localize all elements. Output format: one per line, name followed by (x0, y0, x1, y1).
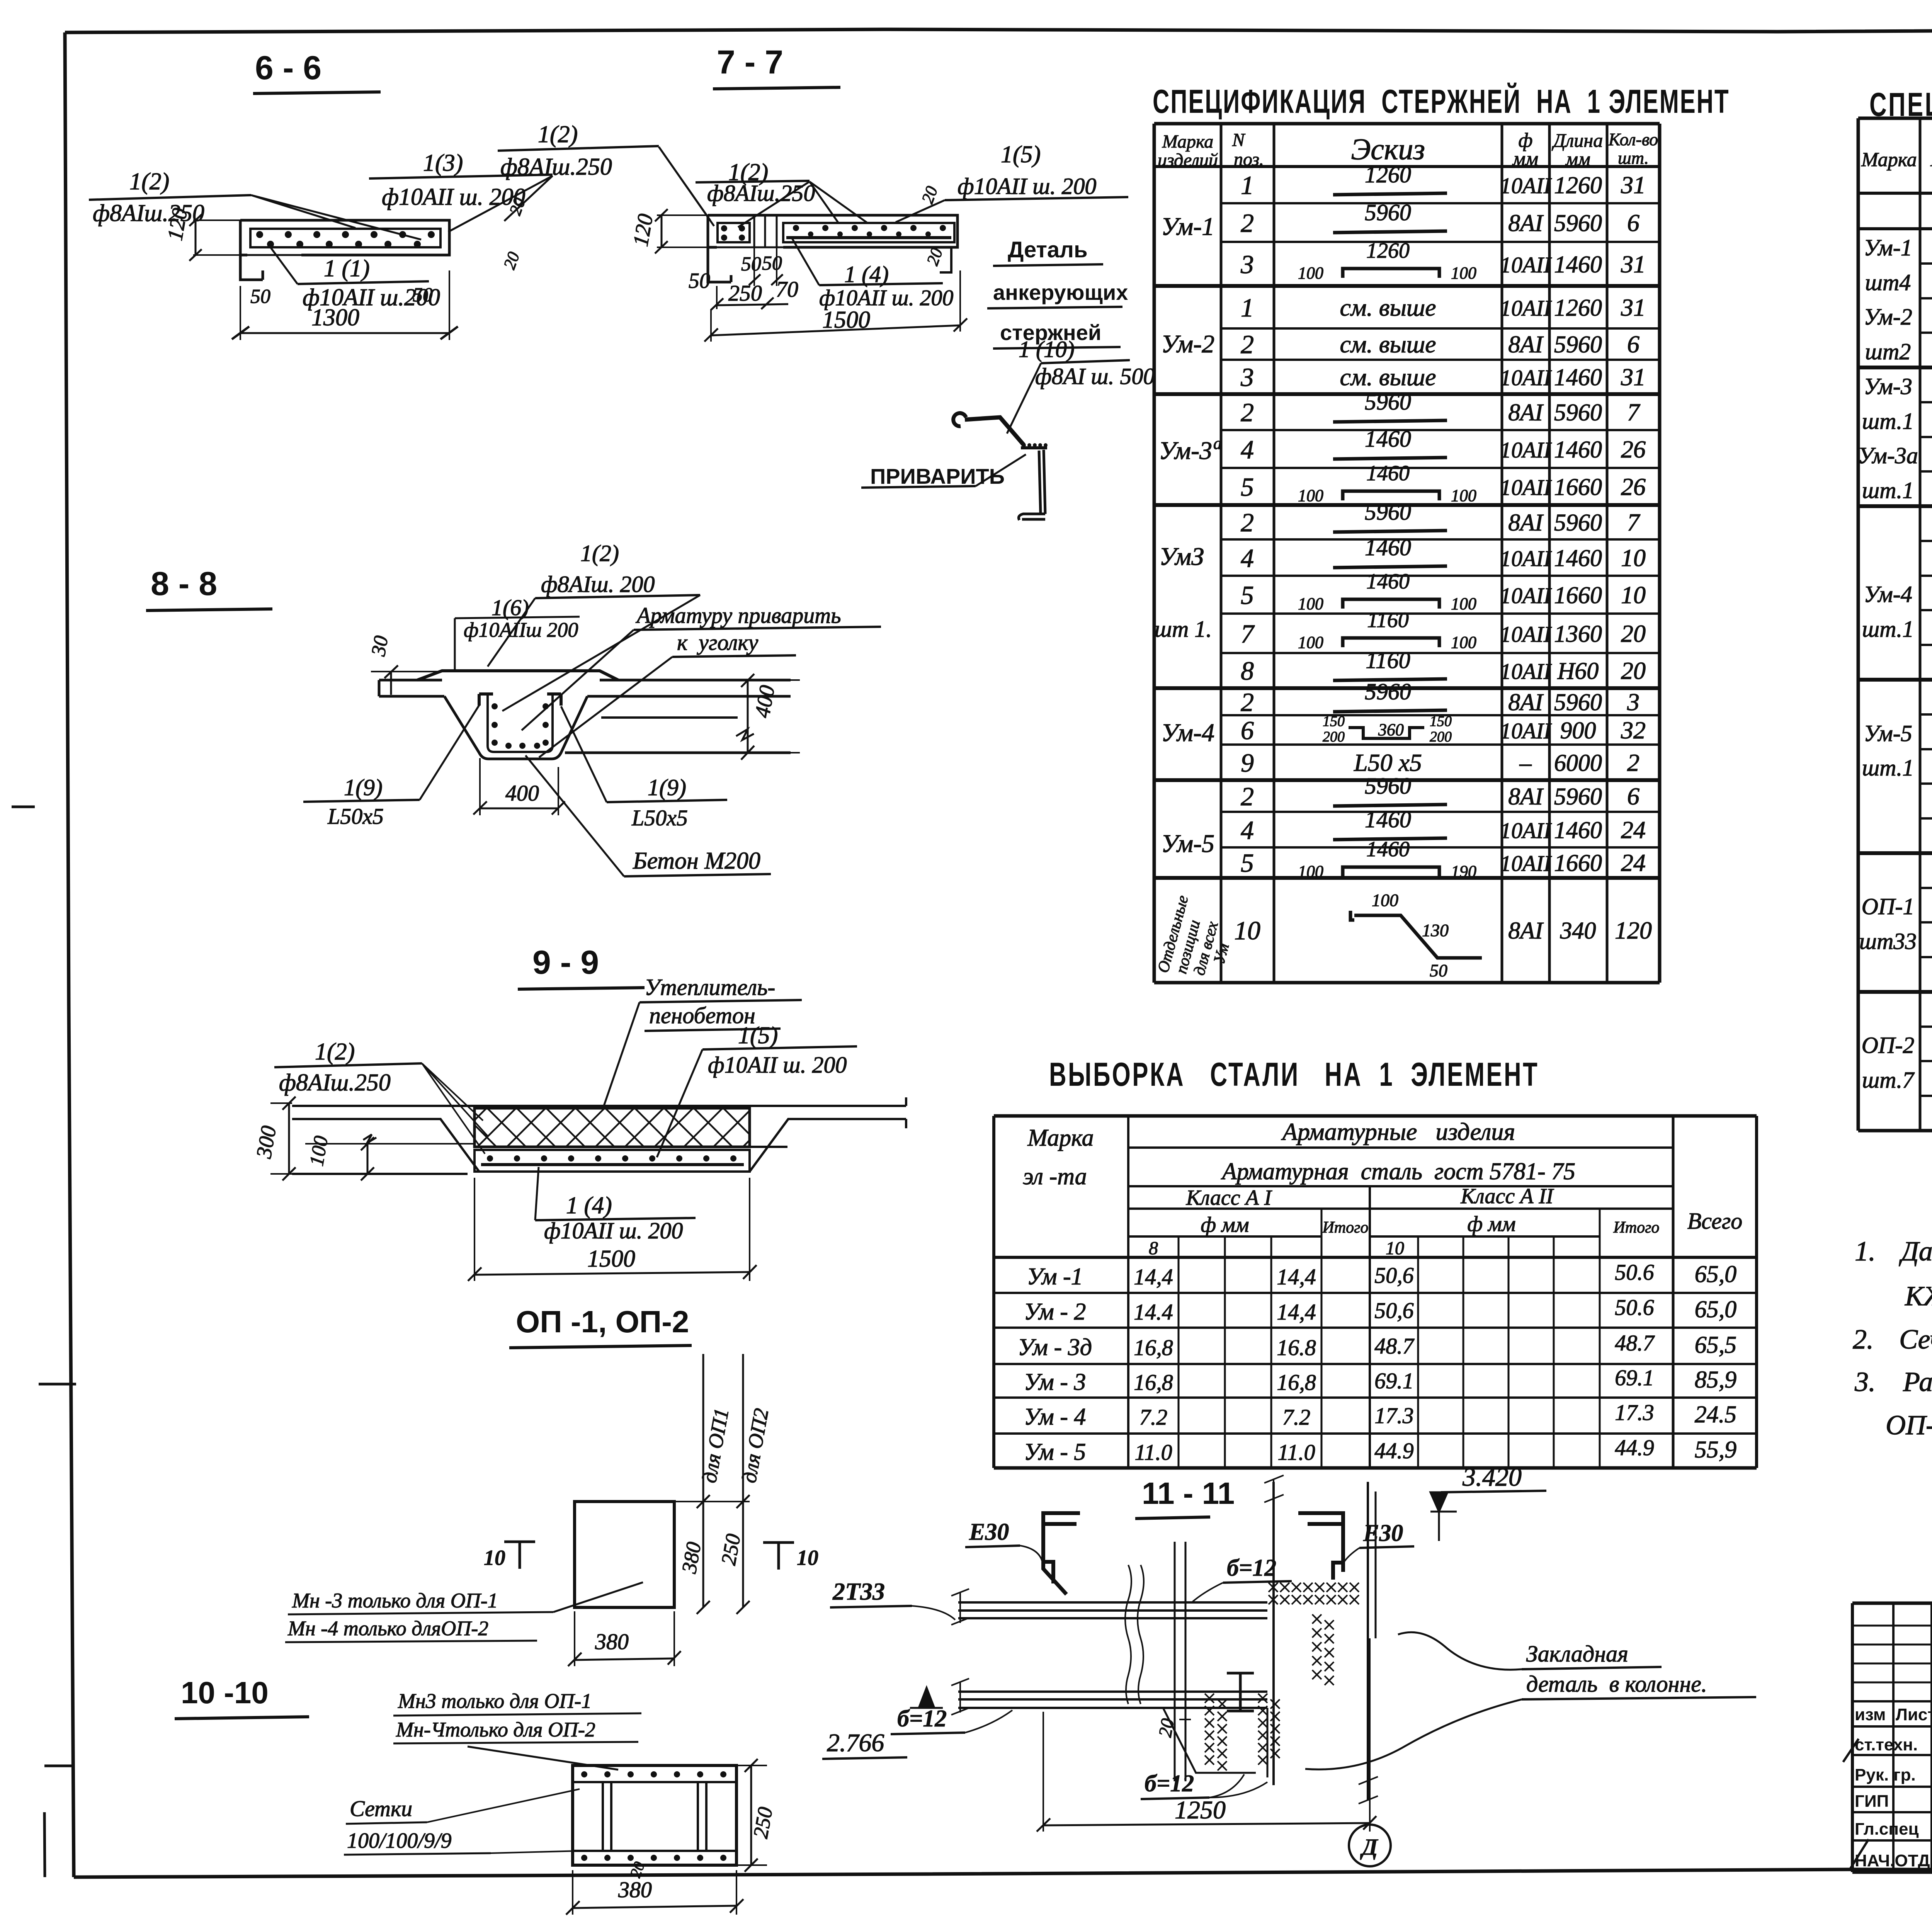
svg-text:100: 100 (1372, 890, 1398, 910)
svg-text:250: 250 (717, 1532, 745, 1567)
svg-text:17.3: 17.3 (1615, 1400, 1654, 1425)
svg-text:10АII: 10АII (1500, 622, 1552, 647)
svg-text:1660: 1660 (1554, 474, 1602, 500)
svg-text:50: 50 (741, 253, 761, 275)
9-9 main slab lines (292, 1106, 906, 1174)
svg-text:5960: 5960 (1554, 210, 1602, 236)
svg-text:10АII: 10АII (1500, 365, 1552, 390)
svg-text:120: 120 (1615, 917, 1652, 944)
svg-text:1660: 1660 (1554, 850, 1602, 876)
8-8 top plate trapezoid (417, 671, 618, 680)
svg-text:изделий: изделий (1158, 150, 1218, 170)
svg-text:8: 8 (1149, 1238, 1158, 1259)
svg-text:КЖ- 18 и КЖ- 19.: КЖ- 18 и КЖ- 19. (1905, 1281, 1932, 1311)
svg-text:16,8: 16,8 (1277, 1370, 1316, 1395)
svg-text:Мн-Чтолько для ОП-2: Мн-Чтолько для ОП-2 (396, 1718, 595, 1741)
svg-text:8 - 8: 8 - 8 (151, 565, 217, 602)
svg-text:360: 360 (1378, 720, 1404, 739)
svg-text:1360: 1360 (1554, 621, 1602, 647)
svg-text:Ум-4: Ум-4 (1864, 582, 1912, 607)
svg-text:8АI: 8АI (1508, 918, 1544, 944)
svg-text:Арматурная сталь гост 5781-: Арматурная сталь гост 5781- 75 (1221, 1158, 1575, 1185)
svg-text:200: 200 (1430, 729, 1452, 745)
svg-text:31: 31 (1621, 363, 1646, 391)
svg-text:2: 2 (1241, 508, 1254, 537)
svg-text:1260: 1260 (1554, 295, 1602, 321)
svg-text:100: 100 (1298, 594, 1323, 613)
svg-text:24: 24 (1621, 816, 1646, 844)
section 7-7 dim 120 (629, 212, 658, 248)
anchor hook detail (953, 413, 966, 426)
svg-text:100: 100 (1451, 594, 1476, 613)
11-11 middle vertical lines (1174, 1542, 1176, 1781)
svg-text:50.6: 50.6 (1615, 1295, 1654, 1320)
svg-text:10АII: 10АII (1500, 252, 1552, 277)
svg-text:Поз.: Поз. (1930, 149, 1932, 171)
svg-text:7 - 7: 7 - 7 (717, 44, 783, 81)
svg-text:5: 5 (1241, 580, 1254, 610)
svg-text:10: 10 (797, 1546, 818, 1570)
svg-text:ОП-2: ОП-2 (1862, 1032, 1915, 1058)
svg-text:10АII: 10АII (1500, 546, 1552, 571)
svg-text:1500: 1500 (587, 1246, 635, 1272)
svg-text:69.1: 69.1 (1615, 1365, 1654, 1390)
svg-text:анкерующих: анкерующих (993, 280, 1128, 304)
svg-text:1(5): 1(5) (1001, 141, 1041, 168)
svg-text:1460: 1460 (1366, 837, 1410, 861)
svg-text:б=12: б=12 (1145, 1770, 1194, 1797)
9-9 dim 100 (306, 1134, 333, 1168)
svg-text:2.: 2. (1853, 1324, 1874, 1355)
svg-text:44.9: 44.9 (1615, 1435, 1654, 1460)
svg-text:10АII: 10АII (1500, 583, 1552, 608)
OP section mark 10 right (763, 1543, 794, 1570)
svg-text:4: 4 (1241, 435, 1254, 464)
svg-text:1(2): 1(2) (580, 541, 619, 566)
svg-text:Арматуру приварить: Арматуру приварить (635, 603, 841, 628)
svg-text:3: 3 (1627, 688, 1639, 716)
svg-text:2: 2 (1627, 749, 1639, 776)
svg-text:к уголку: к уголку (677, 630, 758, 655)
svg-text:ф10АII ш. 200: ф10АII ш. 200 (957, 173, 1097, 199)
svg-text:1460: 1460 (1554, 817, 1602, 844)
svg-text:Лист: Лист (1896, 1705, 1932, 1724)
11-11 bottom beam double lines (958, 1692, 1267, 1708)
11-11 dim 20 (1155, 1717, 1179, 1738)
svg-text:8АI: 8АI (1508, 400, 1544, 426)
svg-text:50: 50 (1430, 961, 1447, 980)
svg-text:Ум-5: Ум-5 (1161, 830, 1214, 858)
svg-text:11 - 11: 11 - 11 (1142, 1476, 1235, 1510)
svg-text:ст.техн.: ст.техн. (1855, 1735, 1918, 1754)
svg-text:ф8АI ш. 500: ф8АI ш. 500 (1035, 364, 1155, 389)
svg-text:Ум-3: Ум-3 (1864, 374, 1912, 399)
svg-text:поз.: поз. (1234, 149, 1264, 170)
9-9 leaders from 1(2) (422, 1063, 483, 1121)
svg-text:ГИП: ГИП (1855, 1792, 1889, 1811)
svg-text:Гл.спец: Гл.спец (1855, 1820, 1919, 1838)
svg-text:31: 31 (1621, 294, 1646, 321)
svg-text:6: 6 (1627, 209, 1639, 236)
svg-text:50: 50 (413, 284, 433, 306)
svg-text:100: 100 (1451, 633, 1476, 652)
svg-text:1(5): 1(5) (738, 1022, 778, 1049)
svg-text:16,8: 16,8 (1134, 1370, 1173, 1395)
svg-text:50.6: 50.6 (1615, 1260, 1654, 1285)
svg-text:5960: 5960 (1365, 200, 1411, 225)
svg-text:100: 100 (1298, 633, 1323, 652)
svg-text:11.0: 11.0 (1134, 1440, 1172, 1465)
section 6-6 beam slab inner (250, 229, 440, 247)
svg-text:ф8АIш. 200: ф8АIш. 200 (541, 571, 655, 597)
svg-text:9 - 9: 9 - 9 (532, 944, 599, 981)
OP section mark 10 left (504, 1542, 535, 1569)
svg-text:24.5: 24.5 (1695, 1401, 1737, 1428)
svg-text:ф10АII ш. 200: ф10АII ш. 200 (544, 1218, 683, 1243)
svg-text:3.: 3. (1854, 1366, 1876, 1397)
svg-text:8: 8 (1241, 656, 1254, 685)
svg-text:Марка: Марка (1027, 1125, 1094, 1151)
11-11 xxx vertical strip (1312, 1614, 1321, 1624)
svg-text:1460: 1460 (1554, 364, 1602, 391)
svg-text:5960: 5960 (1554, 689, 1602, 716)
svg-text:ПРИВАРИТЬ: ПРИВАРИТЬ (870, 464, 1005, 488)
svg-text:7.2: 7.2 (1282, 1405, 1311, 1430)
svg-text:–: – (1519, 750, 1532, 776)
11-11 plate below with xxx (1205, 1694, 1214, 1703)
svg-text:Рук. гр.: Рук. гр. (1855, 1765, 1916, 1784)
steel summary table grid (994, 1116, 1757, 1468)
svg-text:5960: 5960 (1554, 400, 1602, 426)
svg-text:5960: 5960 (1365, 679, 1411, 704)
svg-text:мм: мм (1565, 148, 1590, 170)
svg-text:1300: 1300 (311, 304, 359, 331)
svg-text:31: 31 (1621, 250, 1646, 278)
9-9 right side lines (750, 1097, 906, 1172)
section 7-7 middle slot lines (753, 215, 755, 247)
svg-text:Ум - 2: Ум - 2 (1024, 1299, 1086, 1325)
svg-text:6: 6 (1241, 716, 1254, 745)
svg-text:Итого: Итого (1322, 1219, 1368, 1236)
svg-text:10: 10 (1234, 916, 1260, 945)
svg-text:ф10АII ш. 200: ф10АII ш. 200 (708, 1052, 847, 1078)
svg-text:Закладная: Закладная (1526, 1641, 1628, 1667)
svg-text:10АII: 10АII (1500, 818, 1552, 843)
svg-text:1(6): 1(6) (492, 595, 529, 620)
svg-text:26: 26 (1621, 473, 1646, 500)
svg-text:Ум-2: Ум-2 (1864, 304, 1912, 330)
svg-text:190: 190 (1451, 862, 1476, 881)
svg-text:1 (4): 1 (4) (566, 1192, 612, 1219)
svg-text:Эскиз: Эскиз (1351, 132, 1425, 166)
svg-text:8АI: 8АI (1508, 689, 1544, 716)
svg-text:1460: 1460 (1365, 807, 1411, 832)
section 7-7 small 20 marks (918, 184, 941, 206)
svg-text:14,4: 14,4 (1277, 1299, 1316, 1325)
svg-text:14,4: 14,4 (1134, 1264, 1173, 1289)
svg-text:400: 400 (750, 684, 780, 719)
svg-text:5960: 5960 (1554, 332, 1602, 358)
8-8 dim 400 right (750, 684, 780, 719)
svg-text:эл -та: эл -та (1023, 1163, 1087, 1190)
svg-text:Итого: Итого (1613, 1219, 1659, 1236)
svg-text:L50 х5: L50 х5 (1354, 749, 1422, 776)
svg-text:10АII: 10АII (1500, 173, 1552, 198)
svg-text:1160: 1160 (1366, 648, 1410, 673)
right table grid (1858, 118, 1932, 1131)
svg-text:10: 10 (1386, 1238, 1404, 1259)
8-8 left slab (379, 680, 444, 696)
section 6-6 leader right (504, 176, 553, 221)
svg-text:1460: 1460 (1554, 252, 1602, 278)
svg-text:см. выше: см. выше (1340, 294, 1436, 321)
central table grid (1154, 124, 1660, 983)
svg-text:14,4: 14,4 (1277, 1264, 1316, 1289)
svg-text:ф8АIш.250: ф8АIш.250 (279, 1070, 391, 1096)
svg-text:Ум - 5: Ум - 5 (1024, 1439, 1086, 1465)
svg-text:1: 1 (1241, 170, 1254, 200)
svg-text:10: 10 (1621, 544, 1646, 571)
11-11 middle break (1125, 1565, 1131, 1704)
svg-text:Всего: Всего (1687, 1208, 1743, 1234)
svg-text:200: 200 (1323, 729, 1345, 745)
svg-text:Ум-3: Ум-3 (1159, 437, 1212, 465)
svg-text:50: 50 (762, 252, 782, 274)
svg-text:5: 5 (1241, 848, 1254, 878)
svg-text:50,6: 50,6 (1374, 1263, 1414, 1288)
svg-text:1260: 1260 (1366, 239, 1410, 263)
svg-text:Ум-5: Ум-5 (1864, 721, 1912, 746)
svg-text:6: 6 (1627, 782, 1639, 810)
9-9 hatch box (474, 1108, 750, 1147)
svg-text:Н60: Н60 (1557, 658, 1599, 684)
svg-text:32: 32 (1621, 716, 1646, 744)
svg-text:130: 130 (1422, 920, 1449, 940)
svg-text:10 -10: 10 -10 (181, 1675, 269, 1710)
svg-text:30: 30 (367, 634, 393, 658)
svg-text:6: 6 (1627, 330, 1639, 358)
section 7-7 right inner box (783, 223, 954, 242)
svg-text:Мн -4 только дляОП-2: Мн -4 только дляОП-2 (287, 1617, 488, 1640)
svg-text:120: 120 (163, 206, 192, 242)
svg-text:8АI: 8АI (1508, 510, 1544, 536)
11-11 right channel shape (1298, 1513, 1343, 1580)
svg-text:Бетон М200: Бетон М200 (633, 848, 760, 874)
svg-text:16,8: 16,8 (1134, 1335, 1173, 1360)
svg-text:Сечение 11-11 см. на листе: Сечение 11-11 см. на листе КЖ-19. (1899, 1324, 1932, 1355)
svg-text:Ум-1: Ум-1 (1161, 213, 1214, 241)
10-10 dim 250 (749, 1805, 777, 1840)
8-8 corner angles (479, 694, 493, 706)
svg-text:120: 120 (629, 212, 658, 248)
svg-text:2: 2 (1241, 782, 1254, 811)
svg-text:шт4: шт4 (1865, 270, 1911, 295)
svg-text:8АI: 8АI (1508, 210, 1544, 236)
svg-text:шт.1: шт.1 (1862, 616, 1914, 642)
svg-text:б=12: б=12 (897, 1706, 947, 1732)
svg-text:100: 100 (1298, 486, 1323, 505)
title block (1852, 1603, 1932, 1872)
svg-text:1260: 1260 (1365, 162, 1411, 187)
svg-text:20: 20 (1621, 620, 1646, 647)
svg-text:Е30: Е30 (969, 1519, 1009, 1545)
svg-text:20: 20 (1155, 1717, 1179, 1738)
svg-text:1 (1): 1 (1) (324, 255, 370, 282)
svg-text:6000: 6000 (1554, 750, 1602, 776)
svg-text:380: 380 (618, 1877, 652, 1902)
left margin ticks (12, 806, 35, 808)
svg-text:2: 2 (1241, 330, 1254, 359)
svg-text:85,9: 85,9 (1695, 1367, 1737, 1393)
svg-text:а: а (1213, 434, 1222, 453)
svg-text:2Т33: 2Т33 (832, 1578, 885, 1605)
section 7-7 left inner box (718, 223, 750, 242)
svg-text:3: 3 (1240, 362, 1254, 392)
svg-text:1460: 1460 (1366, 461, 1410, 485)
svg-text:400: 400 (505, 781, 539, 806)
svg-text:5960: 5960 (1554, 510, 1602, 536)
svg-text:10АII: 10АII (1500, 296, 1552, 321)
11-11 left break marks (951, 1589, 969, 1625)
svg-text:8АI: 8АI (1508, 332, 1544, 358)
svg-text:шт 1.: шт 1. (1155, 616, 1212, 642)
leader to anchor hook (1007, 363, 1041, 434)
svg-text:Марка: Марка (1162, 131, 1214, 152)
11-11 axis circle D (1349, 1825, 1391, 1866)
11-11 I anchor symbol (1227, 1673, 1254, 1711)
svg-text:1460: 1460 (1366, 570, 1410, 594)
svg-text:ВЫБОРКА СТАЛИ НА 1 ЭЛЕМЕ: ВЫБОРКА СТАЛИ НА 1 ЭЛЕМЕНТ (1049, 1056, 1539, 1093)
svg-text:Мн3 только для ОП-1: Мн3 только для ОП-1 (398, 1689, 592, 1713)
svg-text:шт.1: шт.1 (1862, 408, 1914, 434)
section 7-7 right lower extension (940, 247, 951, 272)
svg-text:70: 70 (776, 277, 798, 302)
svg-text:8АI: 8АI (1508, 784, 1544, 810)
svg-text:5960: 5960 (1365, 773, 1411, 799)
svg-text:11.0: 11.0 (1277, 1440, 1315, 1465)
svg-text:Класс А I: Класс А I (1186, 1186, 1272, 1210)
svg-text:1(2): 1(2) (129, 168, 169, 195)
section 7-7 bottom slab line (717, 247, 957, 248)
svg-text:10АII: 10АII (1500, 437, 1552, 463)
svg-text:150: 150 (1323, 713, 1345, 730)
svg-text:1(3): 1(3) (423, 150, 463, 176)
svg-text:5960: 5960 (1365, 499, 1411, 525)
svg-text:Сетки: Сетки (350, 1796, 412, 1821)
10-10 top strip (573, 1781, 736, 1783)
svg-text:1660: 1660 (1554, 582, 1602, 609)
svg-text:ОП -1, ОП-2: ОП -1, ОП-2 (516, 1304, 689, 1339)
svg-text:Данный лист рассматривать: Данный лист рассматривать с листами (1899, 1236, 1932, 1267)
svg-text:шт.: шт. (1618, 148, 1649, 168)
svg-text:2: 2 (1241, 687, 1254, 717)
svg-text:48.7: 48.7 (1615, 1330, 1655, 1355)
poz 10 Z-bar sketch (1350, 911, 1482, 958)
svg-text:250: 250 (749, 1805, 777, 1840)
svg-text:1(2): 1(2) (538, 121, 578, 148)
section 6-6 small 20 marks (505, 195, 529, 218)
9-9 dim 300 (252, 1124, 281, 1160)
svg-text:2: 2 (1241, 398, 1254, 427)
section 6-6 beam outline (240, 220, 449, 280)
svg-text:1260: 1260 (1554, 172, 1602, 199)
svg-text:7: 7 (1627, 509, 1641, 536)
svg-text:4: 4 (1241, 543, 1254, 573)
svg-text:1(9): 1(9) (648, 775, 686, 800)
svg-text:Ум-3а: Ум-3а (1858, 443, 1918, 468)
svg-text:17.3: 17.3 (1374, 1403, 1414, 1428)
10-10 beam outline (573, 1765, 736, 1865)
svg-text:ф10АII ш. 200: ф10АII ш. 200 (382, 184, 526, 210)
8-8 right slab bottom (565, 752, 791, 754)
svg-text:380: 380 (595, 1629, 629, 1654)
svg-text:900: 900 (1560, 718, 1596, 744)
svg-text:шт.1: шт.1 (1862, 755, 1914, 781)
svg-text:1460: 1460 (1365, 426, 1411, 452)
11-11 top beam double lines (958, 1602, 1267, 1618)
svg-text:10: 10 (1621, 581, 1646, 609)
svg-text:шт2: шт2 (1865, 339, 1911, 364)
svg-text:Утеплитель-: Утеплитель- (645, 975, 775, 1000)
svg-text:16.8: 16.8 (1277, 1335, 1316, 1360)
svg-text:7: 7 (1241, 619, 1255, 648)
OP square (575, 1502, 674, 1607)
section 6-6 bottom slab line (247, 254, 440, 256)
11-11 right column verticals (1272, 1482, 1275, 1785)
section 6-6 leader lines left (251, 195, 355, 228)
10-10 bottom strip (573, 1850, 736, 1852)
svg-text:ф8АIш.250: ф8АIш.250 (500, 154, 612, 180)
svg-text:1160: 1160 (1367, 608, 1409, 632)
9-9 lower slab with rebar (474, 1150, 750, 1172)
svg-text:1460: 1460 (1554, 437, 1602, 463)
svg-text:1(2): 1(2) (315, 1039, 355, 1065)
svg-text:L50х5: L50х5 (631, 805, 688, 830)
svg-text:5: 5 (1241, 472, 1254, 502)
svg-text:100/100/9/9: 100/100/9/9 (347, 1829, 452, 1853)
11-11 right column breaks (1264, 1475, 1284, 1502)
svg-text:100: 100 (306, 1134, 333, 1168)
svg-text:Ум -1: Ум -1 (1027, 1264, 1083, 1290)
svg-text:ОП-1: ОП-1 (1862, 894, 1915, 919)
svg-text:ф мм: ф мм (1201, 1213, 1249, 1237)
svg-text:мм: мм (1512, 148, 1538, 170)
section 7-7 beam slab outline (708, 215, 957, 282)
svg-text:ф мм: ф мм (1467, 1212, 1515, 1236)
8-8 channel rebar dots (492, 703, 549, 749)
svg-text:изм: изм (1855, 1705, 1886, 1724)
svg-text:шт.1: шт.1 (1862, 478, 1914, 503)
svg-text:10АII: 10АII (1500, 659, 1552, 684)
svg-text:5960: 5960 (1554, 784, 1602, 810)
svg-text:3.420: 3.420 (1462, 1462, 1522, 1492)
svg-text:СПЕЦИФИКАЦИЯ СТЕРЖНЕЙ НА 1: СПЕЦИФИКАЦИЯ СТЕРЖНЕЙ НА 1 ЭЛЕМЕНТ (1153, 82, 1730, 120)
svg-text:10АII: 10АII (1500, 851, 1552, 876)
svg-text:см. выше: см. выше (1340, 330, 1436, 358)
svg-text:1460: 1460 (1365, 535, 1411, 560)
svg-text:ф8АIш.250: ф8АIш.250 (707, 180, 815, 206)
svg-text:100: 100 (1298, 862, 1323, 881)
8-8 dim 30 (367, 634, 393, 658)
svg-text:340: 340 (1560, 918, 1596, 944)
svg-text:100: 100 (1451, 486, 1476, 505)
svg-text:48.7: 48.7 (1374, 1333, 1415, 1359)
svg-text:ф10АIIш 200: ф10АIIш 200 (464, 618, 578, 641)
svg-text:9: 9 (1241, 748, 1254, 777)
svg-text:1460: 1460 (1554, 545, 1602, 571)
svg-text:1(9): 1(9) (344, 775, 383, 800)
svg-text:Марка: Марка (1861, 149, 1917, 171)
